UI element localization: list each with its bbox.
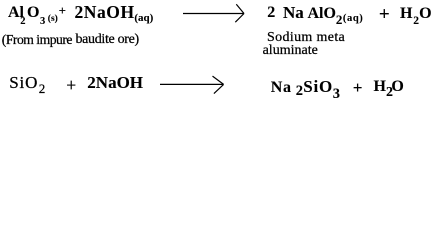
arrow 2 (0, 0, 439, 108)
equation 2 reactant 2NaOH (87, 74, 143, 91)
plus sign 1 (59, 4, 66, 17)
label: sodium meta aluminate (267, 31, 345, 45)
label: from impure baudite ore (2, 33, 72, 47)
equation 1 product 2 NaAlO2(aq) (267, 5, 275, 21)
arrow 1 (0, 0, 439, 108)
equation 2 product H2O (374, 79, 386, 95)
equation 1 product H2O (400, 6, 412, 22)
equation 2 product Na2SiO3 (271, 80, 292, 96)
plus sign 2 (379, 5, 390, 24)
plus sign 4 (353, 79, 363, 96)
equation 1 reactant Al2O3(s) (8, 5, 24, 21)
equation 2 reactant SiO2 (9, 74, 38, 91)
plus sign 3 (66, 77, 76, 95)
equation 1 reactant 2NaOH(aq) (75, 4, 135, 22)
